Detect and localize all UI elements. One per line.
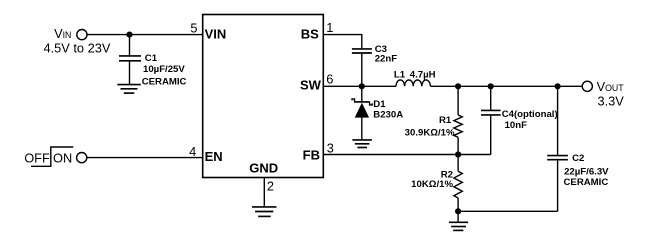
svg-text:IN: IN — [63, 30, 72, 40]
svg-text:B230A: B230A — [373, 110, 403, 121]
svg-text:4.5V to 23V: 4.5V to 23V — [44, 41, 111, 56]
svg-text:CERAMIC: CERAMIC — [564, 177, 609, 188]
svg-text:BS: BS — [301, 26, 319, 41]
svg-text:C2: C2 — [572, 153, 584, 164]
svg-text:OUT: OUT — [605, 83, 624, 93]
svg-text:L1: L1 — [394, 70, 406, 81]
svg-text:EN: EN — [205, 149, 223, 164]
svg-text:ON: ON — [53, 151, 72, 166]
svg-text:C1: C1 — [145, 53, 158, 64]
svg-text:30.9KΩ/1%: 30.9KΩ/1% — [405, 127, 455, 138]
svg-text:SW: SW — [300, 78, 322, 93]
svg-text:D1: D1 — [373, 99, 386, 110]
svg-text:1: 1 — [326, 20, 333, 35]
svg-text:3: 3 — [327, 141, 334, 156]
svg-text:OFF: OFF — [24, 151, 50, 166]
svg-text:3.3V: 3.3V — [598, 94, 625, 109]
svg-text:VIN: VIN — [205, 26, 227, 41]
svg-text:4: 4 — [189, 144, 196, 159]
svg-text:10nF: 10nF — [505, 120, 528, 131]
svg-text:R1: R1 — [439, 115, 452, 126]
svg-text:22nF: 22nF — [375, 54, 398, 65]
svg-text:2: 2 — [267, 178, 274, 193]
svg-text:GND: GND — [249, 160, 278, 175]
svg-text:CERAMIC: CERAMIC — [142, 76, 187, 87]
svg-text:22µF/6.3V: 22µF/6.3V — [564, 166, 609, 177]
svg-text:10µF/25V: 10µF/25V — [143, 64, 185, 75]
svg-text:5: 5 — [190, 21, 197, 36]
svg-text:6: 6 — [326, 72, 333, 87]
svg-text:C4(optional): C4(optional) — [502, 109, 558, 120]
svg-text:FB: FB — [303, 147, 320, 162]
svg-text:10KΩ/1%: 10KΩ/1% — [411, 179, 453, 190]
svg-text:4.7µH: 4.7µH — [410, 70, 436, 81]
